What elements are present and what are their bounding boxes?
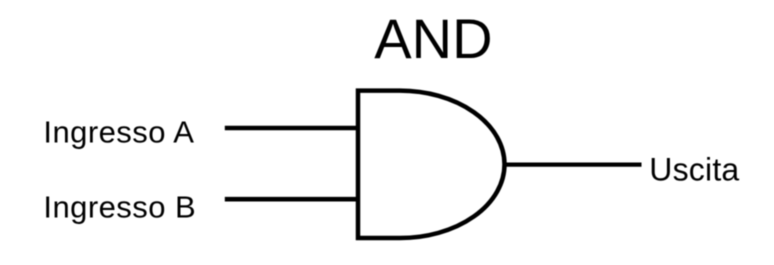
svg-text:Uscita: Uscita — [649, 152, 739, 188]
svg-text:AND: AND — [374, 7, 492, 70]
svg-text:Ingresso A: Ingresso A — [43, 115, 194, 150]
svg-text:Ingresso B: Ingresso B — [43, 190, 196, 225]
